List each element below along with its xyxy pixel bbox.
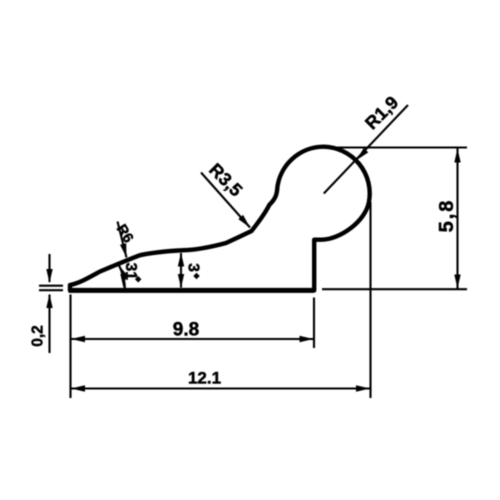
svg-text:R1,9: R1,9	[361, 92, 402, 133]
svg-text:5,8: 5,8	[436, 199, 458, 233]
svg-text:12.1: 12.1	[188, 369, 221, 388]
svg-text:0,2: 0,2	[30, 325, 47, 347]
svg-text:9.8: 9.8	[173, 320, 199, 341]
svg-text:R6: R6	[113, 222, 136, 246]
svg-text:3: 3	[185, 263, 202, 272]
svg-text:R3,5: R3,5	[205, 159, 246, 200]
